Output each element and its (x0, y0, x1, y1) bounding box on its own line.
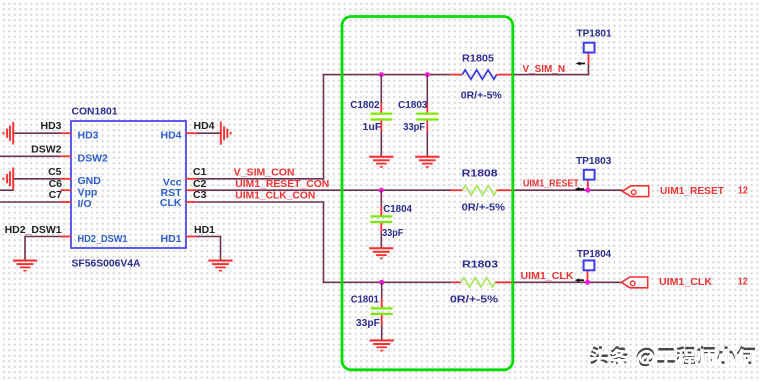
svg-text:UIM1_CLK: UIM1_CLK (521, 270, 574, 282)
capacitor C1801 bottom lead (381, 315, 383, 340)
capacitor C1802 (370, 114, 392, 120)
junction (425, 72, 430, 77)
svg-text:UIM1_CLK_CON: UIM1_CLK_CON (235, 189, 315, 201)
value 33pF (403, 121, 425, 133)
svg-text:I/O: I/O (78, 198, 92, 210)
ground below HD1 (208, 260, 232, 272)
designator C1803 (398, 99, 428, 111)
testpoint TP1804 lead (587, 271, 589, 283)
pin number C1 (193, 166, 207, 178)
svg-text:HD4: HD4 (194, 120, 215, 132)
junction at TP1804 (585, 280, 590, 285)
resistor R1808 (463, 186, 497, 195)
designator TP1804 (577, 248, 611, 260)
ground below C1803 (415, 156, 439, 168)
wire UIM1_CLK (513, 281, 622, 283)
pin name DSW2 (78, 153, 108, 165)
svg-text:HD2_DSW1: HD2_DSW1 (78, 233, 128, 245)
value 0R/+-5% (462, 201, 506, 213)
sheet number 12 (738, 276, 748, 288)
svg-text:33pF: 33pF (356, 317, 381, 329)
wire V_SIM vertical (323, 74, 325, 180)
svg-text:C1802: C1802 (350, 99, 380, 111)
wire HD1 (197, 237, 222, 260)
svg-text:Vpp: Vpp (78, 186, 98, 198)
svg-text:R1805: R1805 (462, 53, 494, 65)
wire HD2_DSW1 (25, 236, 61, 260)
net label V_SIM_CON (234, 167, 295, 179)
junction at TP1803 (585, 188, 590, 193)
svg-text:12: 12 (738, 184, 748, 196)
value 33pF (356, 317, 381, 329)
wire C6 (0, 189, 14, 191)
net label HD3 (40, 120, 61, 132)
wire HD3 (13, 132, 60, 134)
capacitor C1801 top lead (381, 282, 383, 307)
pin stub (186, 201, 197, 203)
wire V_SIM_N (513, 74, 590, 76)
svg-text:TP1804: TP1804 (577, 248, 611, 260)
net label UIM1_RESET_CON (235, 178, 329, 190)
testpoint TP1801 lead (588, 53, 590, 64)
svg-text:TP1801: TP1801 (577, 27, 612, 39)
wire V_SIM_CON horizontal (197, 178, 325, 180)
designator CON1801 (72, 105, 118, 117)
earth ground right of HD4 (220, 122, 232, 145)
svg-text:1uF: 1uF (362, 121, 382, 133)
svg-text:TP1803: TP1803 (576, 155, 612, 167)
wire C7 (0, 201, 61, 203)
pin stub (61, 189, 72, 191)
resistor R1805 right lead (497, 74, 513, 76)
pin stub (61, 201, 72, 203)
svg-text:C1801: C1801 (351, 293, 379, 305)
pin name I/O (78, 198, 92, 210)
wire C5 GND (13, 178, 60, 180)
ground below C1804 (369, 247, 393, 259)
resistor R1803 left lead (452, 281, 461, 283)
ground below C1802 (369, 156, 393, 168)
port UIM1_CLK (621, 277, 647, 288)
pin name HD2_DSW1 (78, 233, 128, 245)
pin stub (186, 189, 197, 191)
testpoint TP1801 square (584, 43, 595, 53)
testpoint TP1803 square (584, 170, 595, 180)
designator C1804 (383, 203, 412, 215)
svg-text:C1: C1 (193, 166, 207, 178)
pin number C2 (193, 178, 207, 190)
capacitor C1804 (370, 216, 392, 222)
net label UIM1_CLK (521, 270, 574, 282)
svg-text:SF56S006V4A: SF56S006V4A (72, 257, 141, 269)
net label C5 (48, 166, 62, 178)
resistor R1808 right lead (497, 189, 513, 191)
wire UIM1_CLK vertical (323, 201, 325, 283)
svg-text:C7: C7 (49, 189, 63, 201)
net label HD1 (194, 224, 215, 236)
svg-text:V_SIM_CON: V_SIM_CON (234, 167, 295, 179)
pin stub (61, 155, 72, 157)
net label V_SIM_N (523, 63, 566, 75)
svg-text:UIM1_RESET: UIM1_RESET (660, 185, 725, 197)
no-ERC arrow at TP1804 (575, 278, 584, 282)
pin number C3 (193, 189, 207, 201)
ground below C1801 (370, 339, 394, 351)
testpoint TP1804 square (584, 261, 595, 271)
svg-text:HD4: HD4 (160, 130, 181, 142)
net label HD4 (194, 120, 215, 132)
capacitor C1804 top lead (380, 190, 382, 215)
capacitor C1804 bottom lead (380, 223, 382, 248)
net label UIM1_RESET (523, 177, 579, 189)
resistor R1803 (461, 278, 495, 287)
svg-text:CON1801: CON1801 (72, 105, 118, 117)
connector CON1801 body (71, 121, 186, 248)
earth ground left of HD3 (2, 122, 14, 145)
net label UIM1_CLK_CON (235, 189, 315, 201)
ground bottom left (13, 260, 37, 272)
junction (379, 188, 384, 193)
svg-text:UIM1_CLK: UIM1_CLK (659, 276, 712, 288)
capacitor C1803 (416, 114, 438, 120)
junction (379, 72, 384, 77)
resistor R1803 right lead (495, 281, 512, 283)
svg-text:33pF: 33pF (382, 227, 403, 239)
svg-text:HD1: HD1 (160, 233, 181, 245)
value 0R/+-5% (450, 294, 499, 306)
pin name GND (78, 175, 102, 187)
designator TP1803 (576, 155, 612, 167)
designator C1802 (350, 99, 380, 111)
svg-text:HD2_DSW1: HD2_DSW1 (5, 224, 62, 236)
capacitor C1802 bottom lead (380, 121, 382, 157)
svg-text:C1803: C1803 (398, 99, 428, 111)
wire DSW2 (0, 155, 61, 157)
wire UIM1_CLK_CON (197, 201, 325, 203)
net label HD2_DSW1 (5, 224, 62, 236)
capacitor C1803 top lead (426, 75, 428, 113)
svg-text:R1808: R1808 (462, 167, 498, 179)
pin name HD3 (78, 129, 99, 141)
pin stub (186, 236, 197, 238)
watermark (590, 346, 755, 369)
svg-text:HD3: HD3 (40, 120, 61, 132)
no-ERC arrow at TP1803 (575, 187, 584, 191)
svg-text:0R/+-5%: 0R/+-5% (461, 90, 503, 102)
svg-text:CLK: CLK (160, 197, 182, 209)
pin stub (186, 132, 197, 134)
pin stub (61, 132, 72, 134)
port UIM1_RESET (622, 186, 648, 197)
svg-text:HD1: HD1 (194, 224, 215, 236)
pin name Vcc (163, 176, 182, 188)
port label UIM1_CLK (659, 276, 712, 288)
sheet number 12 (738, 184, 748, 196)
value 1uF (362, 121, 382, 133)
pin name HD4 (160, 130, 181, 142)
pin stub (186, 178, 197, 180)
testpoint TP1803 lead (587, 180, 589, 191)
net label DSW2 (31, 144, 61, 156)
wire UIM1_CLK bottom (323, 281, 452, 283)
no-ERC arrow at TP1801 (576, 62, 585, 66)
svg-text:C5: C5 (48, 166, 62, 178)
designator R1805 (462, 53, 494, 65)
designator R1808 (462, 167, 498, 179)
capacitor C1802 top lead (380, 75, 382, 113)
pin name HD1 (160, 233, 181, 245)
svg-text:DSW2: DSW2 (31, 144, 61, 156)
svg-text:V_SIM_N: V_SIM_N (523, 63, 566, 75)
value 33pF (382, 227, 403, 239)
capacitor C1801 (371, 308, 393, 314)
resistor R1808 left lead (451, 189, 463, 191)
designator R1803 (462, 258, 498, 270)
svg-text:C1804: C1804 (383, 203, 412, 215)
pin stub (61, 178, 72, 180)
wire V_SIM top (323, 74, 450, 76)
svg-text:R1803: R1803 (462, 258, 498, 270)
capacitor C1803 bottom lead (426, 121, 428, 157)
junction (379, 280, 384, 285)
pin name RST (161, 187, 183, 199)
port label UIM1_RESET (660, 185, 725, 197)
pin stub (61, 236, 72, 238)
designator TP1801 (577, 27, 612, 39)
designator C1801 (351, 293, 379, 305)
svg-text:UIM1_RESET_CON: UIM1_RESET_CON (235, 178, 329, 190)
wire UIM1_RESET (513, 189, 623, 191)
highlight box (342, 17, 513, 370)
svg-text:0R/+-5%: 0R/+-5% (450, 294, 499, 306)
svg-text:33pF: 33pF (403, 121, 425, 133)
svg-text:GND: GND (78, 175, 102, 187)
net label C7 (49, 189, 63, 201)
wire HD4 (197, 132, 221, 134)
svg-text:0R/+-5%: 0R/+-5% (462, 201, 506, 213)
svg-text:UIM1_RESET: UIM1_RESET (523, 177, 579, 189)
svg-text:HD3: HD3 (78, 129, 99, 141)
svg-text:12: 12 (738, 276, 748, 288)
pin name CLK (160, 197, 182, 209)
value 0R/+-5% (461, 90, 503, 102)
svg-text:DSW2: DSW2 (78, 153, 108, 165)
part number SF56S006V4A (72, 257, 141, 269)
net label C6 (49, 178, 63, 190)
earth ground left of C5 (2, 167, 14, 190)
wire to TP1801 (588, 64, 590, 76)
wire UIM1_RESET_CON (197, 189, 451, 191)
resistor R1805 left lead (450, 74, 463, 76)
resistor R1805 (462, 70, 496, 79)
pin name Vpp (78, 186, 98, 198)
